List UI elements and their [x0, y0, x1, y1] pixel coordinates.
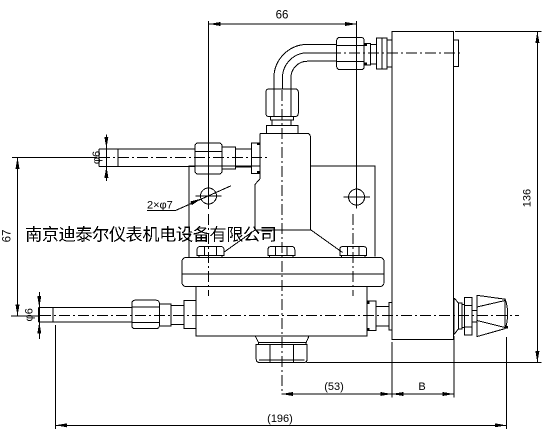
company name watermark text — [26, 226, 275, 242]
upper pipe step piece — [222, 147, 236, 169]
svg-text:(196): (196) — [267, 413, 293, 425]
svg-text:136: 136 — [522, 189, 534, 207]
dimension B — [392, 393, 454, 395]
svg-text:φ6: φ6 — [91, 151, 103, 164]
diaphragm flange — [182, 258, 384, 287]
svg-text:66: 66 — [276, 10, 289, 22]
chamfer tick marks — [257, 143, 260, 146]
bottom neck — [256, 337, 309, 345]
knob washer 2 — [462, 304, 465, 327]
knob collar — [465, 297, 473, 335]
lower inlet pipe — [38, 308, 131, 322]
extension line lower pipe center — [11, 315, 38, 317]
elbow fitting step piece — [364, 44, 370, 65]
lower pipe tube piece — [171, 305, 184, 324]
bottom hex nut — [256, 345, 307, 363]
dimension 136 — [536, 31, 538, 362]
lower pipe / knob centerline — [40, 315, 519, 317]
mounting hole right — [349, 189, 365, 205]
outlet washer at block — [389, 303, 392, 330]
extension line block right — [453, 336, 455, 398]
top fitting neck collar — [266, 126, 298, 134]
elbow fitting washer at block — [387, 40, 392, 67]
flange bolt nut right — [340, 247, 367, 256]
elbow horizontal centerline — [330, 52, 462, 54]
bell diagonal left — [224, 230, 256, 253]
dimension phi6 upper — [105, 135, 107, 181]
flange bolt nut left — [197, 247, 224, 256]
elbow tube outer line — [274, 44, 337, 89]
dimension (53) — [282, 393, 392, 395]
right bolt centerline — [352, 214, 354, 296]
top fitting spacer — [272, 120, 291, 125]
knob washer 1 — [458, 303, 462, 329]
flowmeter side tab — [454, 40, 459, 66]
lower pipe hex nut — [132, 300, 160, 329]
extension line left hole — [208, 21, 210, 209]
upper pipe tube piece — [236, 149, 252, 167]
flowmeter body block — [392, 31, 454, 339]
svg-text:φ6: φ6 — [24, 308, 36, 321]
outlet stub — [376, 307, 389, 327]
bottom hex nut chamfer line — [259, 359, 304, 361]
lower pipe step piece — [159, 304, 171, 326]
elbow fitting collar — [370, 44, 376, 64]
flange bolt nut center — [268, 247, 295, 256]
mounting back plate — [189, 166, 375, 258]
dimension phi6 lower — [38, 292, 40, 339]
left bolt centerline — [208, 214, 210, 296]
body vertical centerline — [281, 90, 283, 394]
svg-text:67: 67 — [2, 230, 14, 243]
regulator upper body outline — [255, 134, 310, 231]
extension line upper pipe center — [12, 156, 97, 158]
dimension 67 — [17, 157, 19, 316]
dimension (196) — [56, 424, 507, 426]
svg-text:(53): (53) — [324, 381, 344, 393]
elbow tube inner line — [291, 61, 337, 89]
elbow tube center line — [282, 53, 336, 89]
adjustment knob — [477, 295, 508, 336]
outlet port piece — [367, 301, 376, 330]
upper pipe port washer/boss — [252, 143, 261, 173]
svg-text:B: B — [418, 381, 425, 393]
dimension 66 — [209, 23, 357, 25]
upper inlet pipe — [99, 149, 195, 167]
upper pipe hex nut — [195, 143, 222, 174]
elbow fitting hex piece — [377, 38, 387, 69]
extension line pipe end — [55, 325, 57, 429]
upper pipe centerline — [99, 157, 267, 159]
extension line block top — [455, 30, 542, 32]
lower pipe washer at body — [184, 301, 196, 329]
mounting hole left (2xPHI7) — [201, 188, 217, 204]
extension line knob end — [505, 337, 507, 429]
regulator top hex nut — [266, 89, 299, 117]
lower valve body — [196, 287, 367, 337]
svg-text:2×φ7: 2×φ7 — [147, 200, 173, 212]
extension line right hole — [356, 21, 358, 190]
knob neck — [472, 310, 477, 322]
extension line block left — [391, 342, 393, 398]
top fitting washer — [271, 117, 294, 121]
bell diagonal right — [311, 230, 343, 253]
elbow horizontal hex nut — [337, 37, 365, 69]
extension line assembly bottom — [307, 362, 542, 364]
knob taper piece — [454, 298, 458, 335]
